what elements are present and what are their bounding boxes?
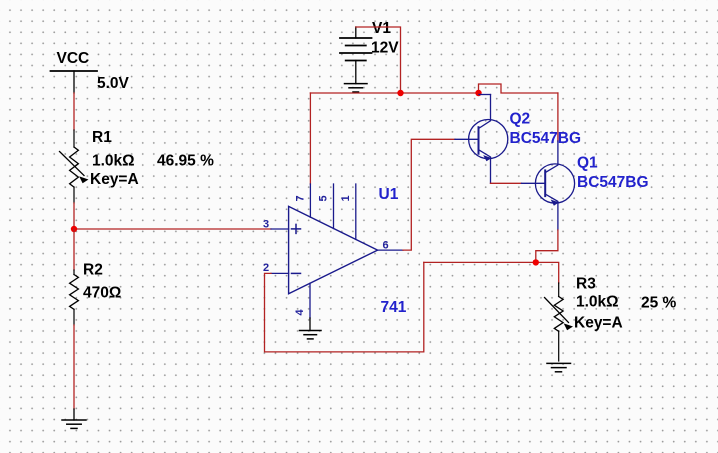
node A junction dot xyxy=(71,226,77,232)
U1 pin 2 xyxy=(271,272,289,274)
junction dot V1/rail xyxy=(397,90,403,96)
wire VCC to R1 xyxy=(73,93,75,130)
ground (V1) xyxy=(345,84,368,92)
resistor R1 (potentiometer) xyxy=(60,130,89,203)
op-amp U1 triangle xyxy=(289,206,378,293)
svg-text:R2: R2 xyxy=(83,262,103,279)
svg-text:12V: 12V xyxy=(371,40,399,57)
wire node A to R2 xyxy=(73,229,75,270)
transistor Q1 xyxy=(522,141,575,230)
svg-text:7: 7 xyxy=(295,195,307,201)
wire U1 output to Q2 base xyxy=(403,139,455,250)
ground (left) xyxy=(62,409,86,428)
svg-text:741: 741 xyxy=(381,299,407,316)
svg-text:BC547BG: BC547BG xyxy=(510,130,582,147)
svg-text:Q1: Q1 xyxy=(577,154,598,171)
wire V1 plus to rail xyxy=(356,27,401,93)
op-amp U1 plus mark xyxy=(292,224,301,233)
svg-text:3: 3 xyxy=(263,219,269,231)
U1 pin 5 xyxy=(333,184,335,229)
svg-text:R1: R1 xyxy=(92,129,112,146)
transistor Q2 xyxy=(455,95,508,184)
wire Q1 emitter to node B xyxy=(536,230,558,262)
svg-text:1: 1 xyxy=(340,195,352,201)
svg-text:1.0kΩ: 1.0kΩ xyxy=(576,294,619,311)
junction dot rail / Q2 collector xyxy=(475,90,481,96)
U1 pin 1 xyxy=(355,184,357,239)
svg-text:2: 2 xyxy=(263,262,269,274)
wire node B to R3 xyxy=(424,262,559,283)
resistor R3 (potentiometer) xyxy=(545,283,574,361)
node B junction dot xyxy=(533,259,539,265)
svg-text:6: 6 xyxy=(383,240,389,252)
battery V1 xyxy=(340,27,372,84)
svg-text:Q2: Q2 xyxy=(510,110,531,127)
svg-text:Key=A: Key=A xyxy=(574,315,623,332)
wire R1 to node A xyxy=(73,203,75,229)
svg-text:BC547BG: BC547BG xyxy=(577,174,649,191)
wire feedback U1 pin2 loop xyxy=(265,262,424,352)
wire U1 pin 4 to ground xyxy=(309,318,311,331)
svg-text:V1: V1 xyxy=(372,20,391,37)
wire rail hop over Q2 collector xyxy=(479,84,558,93)
svg-text:46.95 %: 46.95 % xyxy=(157,153,214,170)
svg-text:U1: U1 xyxy=(379,186,399,203)
wire +12V rail xyxy=(310,92,478,94)
wire node A to U1 pin 3 xyxy=(74,228,271,230)
svg-text:1.0kΩ: 1.0kΩ xyxy=(92,153,135,170)
wire rail down to Q1 collector xyxy=(557,93,559,141)
svg-text:Key=A: Key=A xyxy=(90,171,139,188)
U1 pin 3 xyxy=(271,228,289,230)
svg-text:470Ω: 470Ω xyxy=(83,285,121,302)
svg-text:25 %: 25 % xyxy=(641,295,677,312)
svg-text:5: 5 xyxy=(318,195,330,201)
svg-text:R3: R3 xyxy=(576,276,596,293)
U1 pin 4 xyxy=(309,283,311,318)
U1 pin 7 xyxy=(309,184,311,217)
ground (R3) xyxy=(547,363,571,371)
op-amp U1 minus mark xyxy=(292,272,301,274)
U1 pin 6 xyxy=(378,249,403,251)
ground (U1 pin 4) xyxy=(300,331,322,339)
wire rail down to U1 pin 7 xyxy=(309,93,311,184)
svg-text:4: 4 xyxy=(294,309,306,316)
svg-text:5.0V: 5.0V xyxy=(97,75,130,92)
wire R2 to ground xyxy=(73,325,75,409)
resistor R2 xyxy=(70,270,79,325)
svg-text:VCC: VCC xyxy=(57,50,90,67)
power VCC symbol xyxy=(51,71,98,93)
wire Q2 emitter to Q1 base xyxy=(491,182,522,184)
